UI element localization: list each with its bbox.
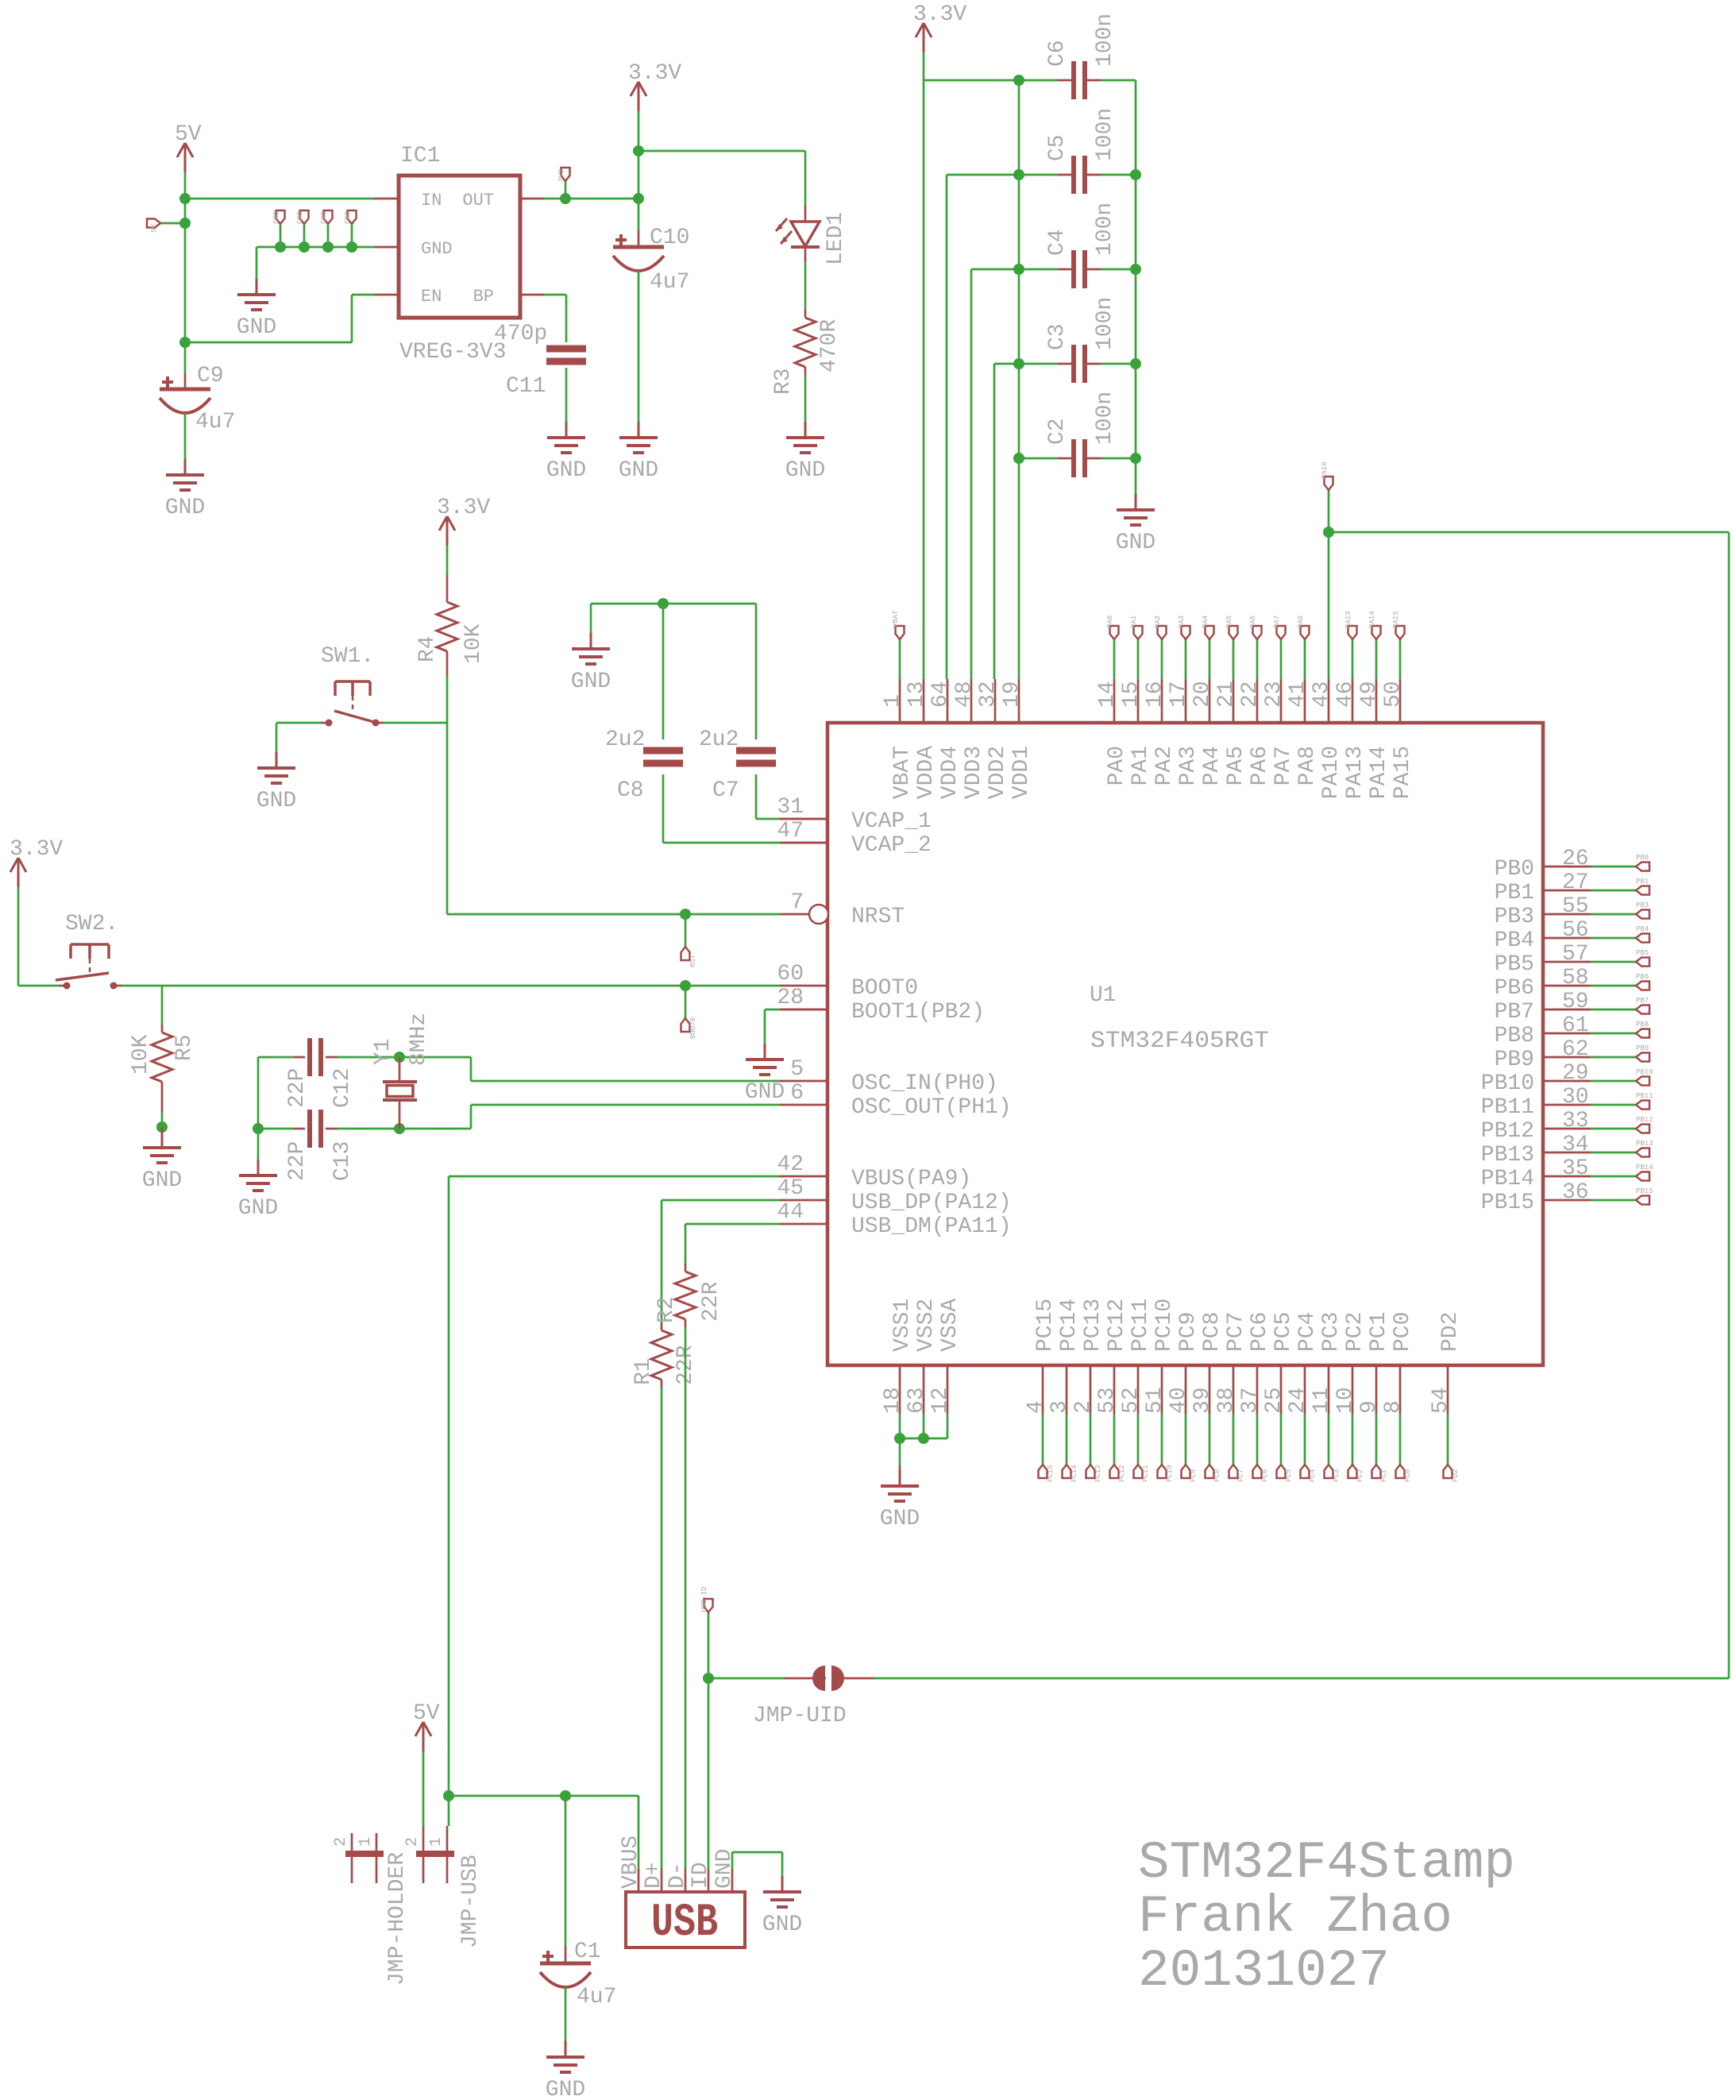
svg-text:GND: GND <box>745 1080 785 1105</box>
svg-text:GND: GND <box>712 1849 737 1889</box>
svg-text:C12: C12 <box>330 1068 355 1108</box>
svg-text:R2: R2 <box>654 1296 679 1323</box>
svg-text:28: 28 <box>777 986 804 1010</box>
svg-text:PB6: PB6 <box>1636 973 1649 981</box>
svg-text:PC15: PC15 <box>1047 1465 1055 1482</box>
svg-text:BOOT1(PB2): BOOT1(PB2) <box>851 1000 985 1025</box>
svg-text:10K: 10K <box>129 1034 153 1075</box>
svg-text:GND: GND <box>880 1507 920 1531</box>
svg-text:PA10: PA10 <box>1319 746 1344 799</box>
svg-text:ID: ID <box>689 1862 713 1889</box>
svg-text:7: 7 <box>790 890 804 915</box>
svg-text:40: 40 <box>1167 1387 1191 1414</box>
svg-text:PB4: PB4 <box>1636 925 1649 933</box>
svg-text:C2: C2 <box>1045 418 1070 445</box>
svg-text:PC13: PC13 <box>1081 1299 1105 1352</box>
svg-text:17: 17 <box>1167 681 1191 708</box>
svg-text:PA15: PA15 <box>1392 611 1400 628</box>
svg-text:GND: GND <box>320 211 328 224</box>
svg-text:22P: 22P <box>285 1141 310 1181</box>
svg-text:Y1: Y1 <box>371 1038 395 1065</box>
svg-text:PA2: PA2 <box>1154 616 1162 628</box>
svg-text:PC8: PC8 <box>1213 1469 1221 1482</box>
svg-text:OSC_OUT(PH1): OSC_OUT(PH1) <box>851 1095 1012 1120</box>
svg-text:PB13: PB13 <box>1481 1143 1534 1168</box>
svg-text:PC8: PC8 <box>1200 1312 1225 1352</box>
svg-text:34: 34 <box>1562 1133 1589 1157</box>
svg-text:4: 4 <box>1024 1400 1048 1414</box>
svg-text:PB8: PB8 <box>1636 1021 1649 1029</box>
svg-text:PC11: PC11 <box>1128 1299 1153 1352</box>
svg-text:C13: C13 <box>330 1141 355 1181</box>
svg-text:38: 38 <box>1214 1387 1239 1414</box>
svg-text:GND: GND <box>571 670 611 694</box>
svg-text:GND: GND <box>237 315 276 340</box>
svg-text:VCAP_1: VCAP_1 <box>851 809 932 834</box>
svg-text:37: 37 <box>1238 1387 1263 1414</box>
svg-text:PB0: PB0 <box>1495 857 1534 882</box>
svg-text:PA5: PA5 <box>1225 616 1233 628</box>
svg-text:PA1: PA1 <box>1128 746 1153 786</box>
svg-text:18: 18 <box>881 1387 905 1414</box>
svg-text:C10: C10 <box>650 226 689 250</box>
svg-text:VBUS(PA9): VBUS(PA9) <box>851 1167 971 1191</box>
svg-text:PB14: PB14 <box>1481 1167 1534 1191</box>
svg-text:44: 44 <box>777 1200 804 1225</box>
svg-text:PC14: PC14 <box>1057 1299 1082 1352</box>
svg-text:R4: R4 <box>415 635 440 662</box>
svg-text:VDDA: VDDA <box>914 746 939 799</box>
svg-text:PB7: PB7 <box>1636 997 1649 1005</box>
svg-text:12: 12 <box>928 1387 953 1414</box>
svg-text:C8: C8 <box>617 778 644 803</box>
svg-text:PB12: PB12 <box>1636 1116 1653 1124</box>
svg-text:VBAT: VBAT <box>892 610 900 627</box>
svg-text:PB15: PB15 <box>1481 1191 1534 1215</box>
svg-text:48: 48 <box>952 681 977 708</box>
svg-text:PB7: PB7 <box>1495 1000 1534 1025</box>
svg-text:26: 26 <box>1562 847 1589 871</box>
svg-text:PC9: PC9 <box>1176 1312 1201 1352</box>
svg-text:PA7: PA7 <box>1273 616 1281 628</box>
svg-text:D-: D- <box>665 1862 690 1889</box>
svg-text:21: 21 <box>1214 681 1239 708</box>
svg-text:4u7: 4u7 <box>195 410 235 434</box>
svg-text:C3: C3 <box>1045 323 1070 350</box>
svg-text:PC6: PC6 <box>1248 1312 1272 1352</box>
svg-text:470R: 470R <box>817 319 842 373</box>
svg-text:PA1: PA1 <box>1130 616 1138 628</box>
svg-text:PB9: PB9 <box>1495 1048 1534 1072</box>
svg-text:43: 43 <box>1310 681 1334 708</box>
svg-text:PA14: PA14 <box>1368 611 1376 628</box>
svg-text:100n: 100n <box>1093 392 1117 445</box>
svg-text:31: 31 <box>777 795 804 820</box>
svg-text:VSSA: VSSA <box>938 1299 963 1352</box>
svg-text:PA4: PA4 <box>1202 616 1209 628</box>
svg-text:EN: EN <box>421 287 442 307</box>
svg-text:13: 13 <box>905 681 929 708</box>
svg-text:PB5: PB5 <box>1636 949 1649 957</box>
svg-text:LED1: LED1 <box>824 212 848 265</box>
svg-text:5V: 5V <box>150 224 158 233</box>
svg-text:PD2: PD2 <box>1452 1469 1460 1482</box>
svg-text:PC11: PC11 <box>1142 1465 1150 1482</box>
svg-text:VBUS: VBUS <box>619 1836 643 1889</box>
svg-text:45: 45 <box>777 1176 804 1201</box>
svg-text:C7: C7 <box>712 778 739 803</box>
svg-text:GND: GND <box>238 1196 278 1221</box>
svg-text:100n: 100n <box>1093 297 1117 350</box>
svg-text:4u7: 4u7 <box>650 270 689 295</box>
svg-text:VDD2: VDD2 <box>986 746 1010 799</box>
svg-text:58: 58 <box>1562 966 1589 990</box>
svg-text:29: 29 <box>1562 1061 1589 1086</box>
svg-text:PB0: PB0 <box>1636 854 1649 862</box>
svg-text:42: 42 <box>777 1152 804 1177</box>
svg-text:PB6: PB6 <box>1495 976 1534 1001</box>
svg-text:3: 3 <box>1047 1400 1072 1414</box>
svg-text:2: 2 <box>403 1837 422 1847</box>
svg-text:PA8: PA8 <box>1295 746 1320 786</box>
svg-text:57: 57 <box>1562 942 1589 967</box>
svg-text:64: 64 <box>928 681 953 708</box>
svg-text:C9: C9 <box>197 364 224 388</box>
svg-text:470p: 470p <box>494 322 547 346</box>
svg-text:60: 60 <box>777 962 804 986</box>
svg-text:PC12: PC12 <box>1118 1465 1126 1482</box>
svg-text:PC5: PC5 <box>1271 1312 1296 1352</box>
svg-text:15: 15 <box>1119 681 1144 708</box>
svg-text:PA13: PA13 <box>1343 746 1368 799</box>
svg-text:36: 36 <box>1562 1180 1589 1205</box>
svg-text:PC7: PC7 <box>1224 1312 1248 1352</box>
svg-text:GND: GND <box>1116 531 1155 555</box>
svg-text:OUT: OUT <box>462 191 494 210</box>
svg-text:33: 33 <box>1562 1109 1589 1133</box>
svg-text:9: 9 <box>1357 1400 1382 1414</box>
svg-text:PA0: PA0 <box>1106 616 1114 628</box>
svg-text:VREG-3V3: VREG-3V3 <box>399 340 506 365</box>
svg-text:VDD3: VDD3 <box>962 746 986 799</box>
svg-text:52: 52 <box>1119 1387 1144 1414</box>
svg-text:PB10: PB10 <box>1636 1068 1653 1076</box>
svg-text:STM32F405RGT: STM32F405RGT <box>1090 1028 1269 1055</box>
svg-text:PC4: PC4 <box>1309 1469 1317 1482</box>
svg-text:3.3V: 3.3V <box>437 496 490 520</box>
svg-text:PB4: PB4 <box>1495 928 1534 953</box>
svg-text:GND: GND <box>546 2078 585 2100</box>
svg-text:62: 62 <box>1562 1037 1589 1062</box>
svg-text:PA8: PA8 <box>1297 616 1305 628</box>
svg-text:PC10: PC10 <box>1152 1299 1177 1352</box>
svg-text:PC4: PC4 <box>1295 1312 1320 1352</box>
svg-text:GND: GND <box>296 211 304 224</box>
svg-text:SW2.: SW2. <box>65 912 118 936</box>
svg-text:RST: RST <box>689 954 697 967</box>
svg-text:IC1: IC1 <box>400 144 440 168</box>
svg-text:63: 63 <box>905 1387 929 1414</box>
svg-text:59: 59 <box>1562 990 1589 1014</box>
svg-text:OSC_IN(PH0): OSC_IN(PH0) <box>851 1071 998 1096</box>
svg-text:PC15: PC15 <box>1033 1299 1058 1352</box>
svg-text:3V3: 3V3 <box>557 169 565 182</box>
svg-text:SW1.: SW1. <box>321 644 374 669</box>
svg-text:JMP-USB: JMP-USB <box>458 1855 483 1948</box>
svg-text:51: 51 <box>1143 1387 1167 1414</box>
svg-text:GND: GND <box>762 1913 802 1937</box>
svg-text:PA3: PA3 <box>1176 746 1201 786</box>
svg-text:PC1: PC1 <box>1367 1312 1391 1352</box>
svg-text:R5: R5 <box>172 1034 197 1061</box>
svg-text:C5: C5 <box>1045 134 1070 161</box>
svg-text:STM32F4Stamp: STM32F4Stamp <box>1138 1833 1515 1893</box>
svg-text:PC1: PC1 <box>1380 1469 1388 1482</box>
svg-text:PC2: PC2 <box>1356 1469 1364 1482</box>
svg-text:8MHz: 8MHz <box>407 1013 431 1066</box>
svg-text:GND: GND <box>272 211 280 224</box>
svg-text:VDD1: VDD1 <box>1009 746 1034 799</box>
svg-text:54: 54 <box>1429 1387 1453 1414</box>
svg-text:3.3V: 3.3V <box>628 61 681 86</box>
svg-text:PA10: PA10 <box>1321 461 1329 479</box>
svg-text:GND: GND <box>344 211 352 224</box>
svg-text:VCAP_2: VCAP_2 <box>851 833 932 858</box>
svg-text:PB5: PB5 <box>1495 952 1534 977</box>
svg-text:PB10: PB10 <box>1481 1071 1534 1096</box>
svg-text:R3: R3 <box>771 368 796 395</box>
svg-text:8: 8 <box>1381 1400 1406 1414</box>
svg-text:20: 20 <box>1190 681 1215 708</box>
svg-text:PC2: PC2 <box>1343 1312 1368 1352</box>
svg-text:C11: C11 <box>506 374 546 399</box>
svg-text:R1: R1 <box>631 1358 656 1385</box>
svg-text:1: 1 <box>881 694 905 708</box>
svg-text:2u2: 2u2 <box>605 728 645 752</box>
svg-text:100n: 100n <box>1093 203 1117 256</box>
svg-text:PC5: PC5 <box>1285 1469 1293 1482</box>
svg-text:PC13: PC13 <box>1094 1465 1102 1482</box>
svg-text:27: 27 <box>1562 870 1589 895</box>
svg-text:1: 1 <box>357 1837 375 1847</box>
svg-text:6: 6 <box>790 1081 804 1106</box>
svg-text:19: 19 <box>1000 681 1024 708</box>
svg-text:GND: GND <box>165 496 205 520</box>
svg-text:PC12: PC12 <box>1105 1299 1129 1352</box>
svg-text:C1: C1 <box>574 1940 601 1964</box>
svg-text:20131027: 20131027 <box>1138 1941 1390 2001</box>
svg-text:53: 53 <box>1095 1387 1120 1414</box>
svg-text:4u7: 4u7 <box>577 1985 616 2009</box>
svg-text:5V: 5V <box>175 122 202 147</box>
svg-text:46: 46 <box>1333 681 1358 708</box>
svg-text:GND: GND <box>142 1168 182 1193</box>
svg-text:PC3: PC3 <box>1333 1469 1341 1482</box>
svg-text:BOOT0: BOOT0 <box>851 976 918 1001</box>
svg-text:U1: U1 <box>1090 983 1117 1008</box>
svg-text:23: 23 <box>1262 681 1287 708</box>
svg-text:PA14: PA14 <box>1367 746 1391 799</box>
svg-text:PC9: PC9 <box>1190 1469 1198 1482</box>
svg-text:PA5: PA5 <box>1224 746 1248 786</box>
svg-text:2u2: 2u2 <box>699 728 739 752</box>
svg-text:PC7: PC7 <box>1237 1469 1245 1482</box>
svg-text:30: 30 <box>1562 1085 1589 1110</box>
svg-text:PA4: PA4 <box>1200 746 1225 786</box>
svg-text:Frank Zhao: Frank Zhao <box>1138 1887 1452 1947</box>
svg-text:11: 11 <box>1310 1387 1334 1414</box>
svg-text:BOOT0: BOOT0 <box>689 1017 697 1039</box>
svg-text:PC0: PC0 <box>1391 1312 1415 1352</box>
svg-text:GND: GND <box>257 789 296 813</box>
svg-text:GND: GND <box>546 458 586 483</box>
svg-text:GND: GND <box>619 458 658 483</box>
svg-text:24: 24 <box>1286 1387 1310 1414</box>
svg-text:49: 49 <box>1357 681 1382 708</box>
svg-text:3.3V: 3.3V <box>913 2 966 27</box>
svg-text:USB_DM(PA11): USB_DM(PA11) <box>851 1214 1012 1239</box>
svg-text:22R: 22R <box>699 1281 723 1322</box>
svg-text:NRST: NRST <box>851 905 905 929</box>
svg-text:D+: D+ <box>642 1862 666 1889</box>
svg-text:22: 22 <box>1238 681 1263 708</box>
svg-text:5: 5 <box>790 1057 804 1082</box>
svg-text:55: 55 <box>1562 894 1589 919</box>
svg-text:35: 35 <box>1562 1156 1589 1181</box>
svg-text:PC6: PC6 <box>1261 1469 1269 1482</box>
svg-text:2: 2 <box>1071 1400 1096 1414</box>
svg-text:50: 50 <box>1381 681 1406 708</box>
svg-text:PB1: PB1 <box>1495 881 1534 905</box>
svg-text:USB-ID: USB-ID <box>700 1587 708 1612</box>
svg-text:PC3: PC3 <box>1319 1312 1344 1352</box>
svg-text:VBAT: VBAT <box>890 746 915 799</box>
svg-text:41: 41 <box>1286 681 1310 708</box>
svg-text:JMP-UID: JMP-UID <box>753 1704 847 1728</box>
svg-text:22P: 22P <box>285 1068 310 1108</box>
svg-text:PC0: PC0 <box>1404 1469 1412 1482</box>
svg-text:C4: C4 <box>1045 229 1070 256</box>
svg-text:10K: 10K <box>461 623 486 664</box>
svg-text:PB3: PB3 <box>1495 905 1534 929</box>
svg-text:BP: BP <box>473 287 494 307</box>
svg-text:10: 10 <box>1333 1387 1358 1414</box>
svg-text:100n: 100n <box>1093 108 1117 161</box>
svg-text:PB8: PB8 <box>1495 1024 1534 1048</box>
svg-text:PA15: PA15 <box>1391 746 1415 799</box>
svg-text:39: 39 <box>1190 1387 1215 1414</box>
svg-text:PC10: PC10 <box>1166 1465 1174 1482</box>
svg-text:PA13: PA13 <box>1344 611 1352 628</box>
svg-text:VDD4: VDD4 <box>938 746 963 799</box>
svg-text:PA7: PA7 <box>1271 746 1296 786</box>
svg-text:PB11: PB11 <box>1636 1092 1653 1100</box>
svg-text:USB_DP(PA12): USB_DP(PA12) <box>851 1191 1012 1215</box>
svg-text:PB14: PB14 <box>1636 1164 1653 1172</box>
svg-text:PB15: PB15 <box>1636 1187 1653 1195</box>
svg-text:PB3: PB3 <box>1636 901 1649 909</box>
svg-text:PA3: PA3 <box>1178 616 1186 628</box>
svg-text:C6: C6 <box>1045 40 1070 67</box>
svg-text:PB1: PB1 <box>1636 878 1649 886</box>
svg-text:PB9: PB9 <box>1636 1044 1649 1052</box>
svg-text:IN: IN <box>421 191 442 210</box>
svg-text:16: 16 <box>1143 681 1167 708</box>
svg-text:1: 1 <box>427 1837 446 1847</box>
svg-text:14: 14 <box>1095 681 1120 708</box>
svg-text:PA2: PA2 <box>1152 746 1177 786</box>
svg-text:PB12: PB12 <box>1481 1119 1534 1144</box>
svg-text:GND: GND <box>421 239 453 259</box>
svg-text:PC14: PC14 <box>1071 1465 1078 1482</box>
svg-text:61: 61 <box>1562 1013 1589 1038</box>
svg-text:GND: GND <box>785 458 825 483</box>
svg-text:PB11: PB11 <box>1481 1095 1534 1120</box>
svg-text:2: 2 <box>332 1837 350 1847</box>
svg-text:PA6: PA6 <box>1248 746 1272 786</box>
svg-text:5V: 5V <box>413 1701 440 1726</box>
svg-text:PA6: PA6 <box>1249 616 1257 628</box>
svg-text:47: 47 <box>777 819 804 843</box>
svg-text:32: 32 <box>976 681 1001 708</box>
svg-text:100n: 100n <box>1093 14 1117 67</box>
svg-text:JMP-HOLDER: JMP-HOLDER <box>385 1852 410 1986</box>
svg-text:56: 56 <box>1562 918 1589 943</box>
svg-text:PB13: PB13 <box>1636 1140 1653 1148</box>
svg-text:PA0: PA0 <box>1105 746 1129 786</box>
svg-text:25: 25 <box>1262 1387 1287 1414</box>
svg-text:USB: USB <box>651 1897 718 1949</box>
svg-text:VSS1: VSS1 <box>890 1299 915 1352</box>
svg-text:VSS2: VSS2 <box>914 1299 939 1352</box>
svg-text:PD2: PD2 <box>1438 1312 1463 1352</box>
